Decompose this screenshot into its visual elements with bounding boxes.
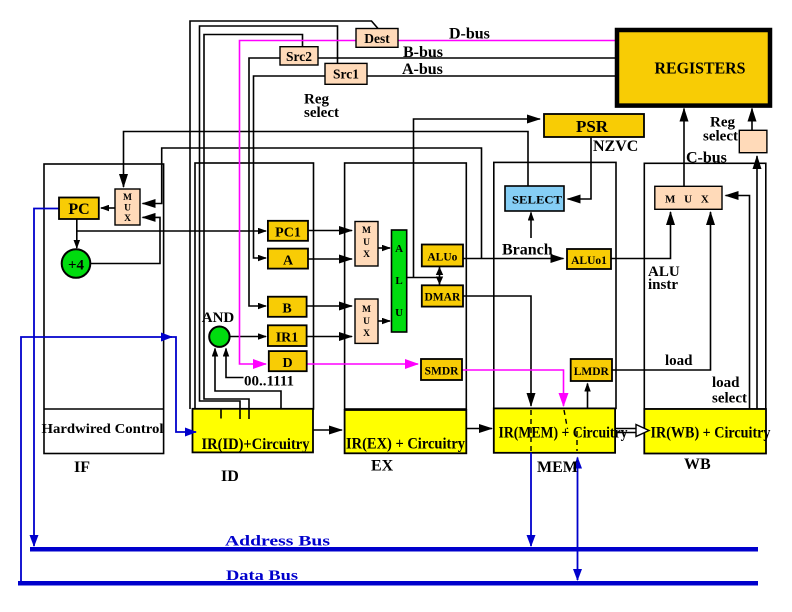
svg-text:PSR: PSR bbox=[576, 117, 609, 136]
svg-text:instr: instr bbox=[648, 277, 678, 293]
register A bbox=[268, 249, 308, 269]
register PC bbox=[59, 198, 99, 220]
svg-text:AND: AND bbox=[202, 310, 235, 326]
wire PC to PC1 bbox=[77, 230, 266, 232]
wire Branch condition into SELECT bbox=[530, 213, 532, 239]
wire Dest select (IR(ID) up to Dest box) bbox=[190, 21, 378, 409]
wire PC to +4 bbox=[76, 231, 78, 248]
svg-text:IR(ID)+Circuitry: IR(ID)+Circuitry bbox=[202, 436, 310, 453]
svg-text:M: M bbox=[362, 226, 371, 236]
wire B-bus from REGISTERS down to B register bbox=[249, 58, 617, 306]
register B bbox=[268, 297, 307, 317]
register PC1 bbox=[268, 221, 308, 241]
ID stage box bbox=[195, 163, 314, 409]
svg-text:IR(EX) + Circuitry: IR(EX) + Circuitry bbox=[346, 436, 465, 453]
svg-text:D-bus: D-bus bbox=[449, 26, 490, 43]
wire IR(EX) to IR(MEM) bbox=[467, 428, 493, 430]
svg-text:ID: ID bbox=[221, 468, 239, 485]
wire C-bus WB MUX to REGISTERS bbox=[683, 109, 685, 187]
svg-text:MEM: MEM bbox=[537, 459, 578, 476]
wire AND input 2 to 00..1111 bbox=[226, 349, 244, 378]
wire IR(MEM) to IR(WB) open arrow bbox=[615, 425, 649, 437]
svg-text:Branch: Branch bbox=[502, 242, 553, 259]
svg-text:ALUo1: ALUo1 bbox=[571, 255, 607, 267]
wire EX MUX1 to ALU bbox=[378, 247, 390, 249]
wire IF MUX to PC bbox=[101, 207, 115, 209]
svg-text:IR(MEM) + Circuitry: IR(MEM) + Circuitry bbox=[499, 425, 628, 442]
wire D-bus from REGISTERS down into D register bbox=[240, 41, 618, 365]
wire AND to IR1 bbox=[230, 336, 267, 338]
wire Data Bus instruction fetch to IF bbox=[21, 337, 172, 582]
svg-text:Src2: Src2 bbox=[286, 49, 312, 64]
svg-text:A-bus: A-bus bbox=[402, 61, 443, 78]
svg-text:ALUo: ALUo bbox=[427, 252, 457, 264]
box Src1 bbox=[325, 63, 367, 84]
svg-text:Dest: Dest bbox=[364, 31, 390, 46]
MEM stage box bbox=[494, 162, 616, 408]
wire DMAR to memory address bbox=[463, 296, 531, 406]
svg-text:REGISTERS: REGISTERS bbox=[655, 59, 746, 78]
unit ALU box bbox=[392, 230, 407, 332]
svg-text:U: U bbox=[363, 317, 370, 327]
pipeline latch IR(ID)+Circuitry bbox=[193, 409, 314, 453]
register D bbox=[269, 351, 307, 371]
svg-text:00..1111: 00..1111 bbox=[244, 374, 294, 390]
wire branch target return into IF MUX bbox=[143, 148, 482, 259]
svg-text:M: M bbox=[123, 193, 132, 203]
wire dashed memory connections inside IR(MEM) bbox=[531, 410, 577, 451]
svg-text:select: select bbox=[703, 129, 738, 145]
svg-text:EX: EX bbox=[371, 458, 394, 475]
pipeline latch IR(WB)+Circuitry bbox=[644, 409, 766, 454]
wire memory data to/from Data Bus bbox=[577, 458, 579, 581]
wire EX MUX2 to ALU bbox=[378, 320, 390, 322]
svg-text:select: select bbox=[304, 105, 339, 121]
wire SMDR store data to memory bbox=[462, 370, 564, 406]
svg-text:M U X: M U X bbox=[665, 194, 712, 206]
wire SELECT to IF MUX control bbox=[124, 132, 529, 188]
svg-text:+4: +4 bbox=[68, 258, 85, 274]
WB stage box bbox=[644, 163, 766, 409]
wire +4 feedback loop into IF MUX bbox=[91, 217, 161, 263]
wire PC1 to EX MUX1 bbox=[308, 230, 352, 232]
pipeline latch IR(MEM)+Circuitry bbox=[494, 408, 615, 452]
box Src2 bbox=[280, 47, 318, 65]
wire ALU flags to PSR bbox=[414, 119, 541, 278]
svg-text:U: U bbox=[395, 307, 403, 319]
wire PC output down bbox=[76, 219, 78, 231]
wire A to EX MUX1 bbox=[308, 258, 352, 260]
wire reg select from IR(WB) bbox=[756, 156, 758, 409]
mux EX MUX2 bbox=[355, 299, 378, 343]
svg-text:Address Bus: Address Bus bbox=[225, 534, 330, 550]
svg-text:IR1: IR1 bbox=[276, 331, 299, 346]
wire memory address to Address Bus bbox=[530, 453, 532, 547]
svg-text:SMDR: SMDR bbox=[425, 366, 460, 378]
wire ALUo to ALUo1 bbox=[463, 258, 564, 260]
gate AND circle bbox=[209, 327, 229, 347]
wire PC to Address Bus bbox=[34, 209, 59, 547]
svg-text:X: X bbox=[363, 329, 370, 339]
svg-text:PC1: PC1 bbox=[275, 226, 301, 241]
wire IR(ID) to IR(EX) bbox=[313, 429, 342, 431]
wire reg-select box to REGISTERS bbox=[751, 109, 753, 131]
svg-text:Data Bus: Data Bus bbox=[226, 568, 298, 584]
box Dest bbox=[356, 29, 398, 48]
wire ALUo1 to WB MUX bbox=[611, 212, 671, 259]
svg-text:DMAR: DMAR bbox=[425, 292, 461, 304]
svg-text:L: L bbox=[395, 275, 402, 287]
register PSR bbox=[544, 114, 644, 137]
svg-text:IF: IF bbox=[74, 459, 90, 476]
register IR1 bbox=[268, 325, 307, 346]
svg-text:select: select bbox=[712, 391, 747, 407]
wire ALU output bbox=[407, 277, 440, 279]
Address Bus bbox=[30, 547, 758, 552]
svg-text:A: A bbox=[283, 254, 294, 269]
svg-text:U: U bbox=[124, 204, 131, 214]
mux EX MUX1 bbox=[355, 222, 378, 267]
EX stage box bbox=[345, 163, 467, 409]
svg-text:U: U bbox=[363, 238, 370, 248]
svg-text:X: X bbox=[124, 214, 131, 224]
wire AND input 1 from IR(ID) bbox=[215, 349, 281, 410]
wire instruction into IR(ID) bbox=[171, 337, 196, 432]
mux IF MUX bbox=[115, 189, 140, 225]
wire Src1 select (IR(ID) up to Src1 box) bbox=[200, 26, 338, 419]
wire D register to SMDR bbox=[307, 363, 419, 365]
svg-text:load: load bbox=[712, 375, 740, 391]
svg-text:B: B bbox=[282, 302, 291, 317]
box SELECT bbox=[505, 186, 564, 211]
svg-text:PC: PC bbox=[68, 201, 89, 218]
svg-text:D: D bbox=[282, 356, 292, 371]
wire A-bus from REGISTERS down to A register bbox=[254, 76, 618, 258]
box WB reg-select bbox=[739, 130, 767, 152]
svg-text:SELECT: SELECT bbox=[512, 193, 562, 207]
mux WB MUX bbox=[655, 186, 722, 209]
IF hardwired-control partition line bbox=[44, 408, 164, 410]
pipeline latch IR(EX)+Circuitry bbox=[345, 410, 467, 453]
svg-text:IR(WB) + Circuitry: IR(WB) + Circuitry bbox=[651, 425, 771, 442]
svg-text:Hardwired Control: Hardwired Control bbox=[42, 421, 164, 436]
register ALUo1 bbox=[567, 249, 611, 269]
Data Bus bbox=[18, 581, 758, 586]
svg-text:B-bus: B-bus bbox=[403, 44, 443, 61]
svg-text:M: M bbox=[362, 305, 371, 315]
register DMAR bbox=[422, 285, 463, 306]
svg-text:load: load bbox=[665, 353, 693, 369]
svg-text:X: X bbox=[363, 250, 370, 260]
wire LMDR load data to WB MUX bbox=[612, 212, 711, 370]
wire IR1 to EX MUX2 bbox=[307, 336, 353, 338]
adder +4 circle bbox=[62, 249, 91, 278]
svg-text:Src1: Src1 bbox=[333, 67, 359, 82]
register ALUo bbox=[422, 245, 463, 267]
wire B to EX MUX2 bbox=[307, 305, 353, 307]
register LMDR bbox=[571, 359, 612, 381]
wire PSR NZVC to SELECT bbox=[568, 137, 592, 199]
REGISTERS file box bbox=[617, 30, 770, 106]
register SMDR bbox=[421, 359, 462, 380]
svg-text:A: A bbox=[395, 243, 403, 255]
wire memory load data up into LMDR bbox=[587, 384, 589, 409]
svg-text:WB: WB bbox=[684, 456, 711, 473]
wire ALU output split to ALUo and DMAR bbox=[439, 267, 441, 286]
svg-text:LMDR: LMDR bbox=[574, 366, 610, 378]
svg-text:C-bus: C-bus bbox=[686, 150, 727, 167]
IF stage box bbox=[44, 164, 164, 454]
wire Src2 select (IR(ID) up to Src2 box) bbox=[204, 35, 303, 420]
wire stub into IR(ID) bbox=[220, 409, 222, 419]
svg-text:NZVC: NZVC bbox=[593, 138, 638, 155]
wire load select from IR(WB) to WB MUX bbox=[726, 196, 750, 410]
